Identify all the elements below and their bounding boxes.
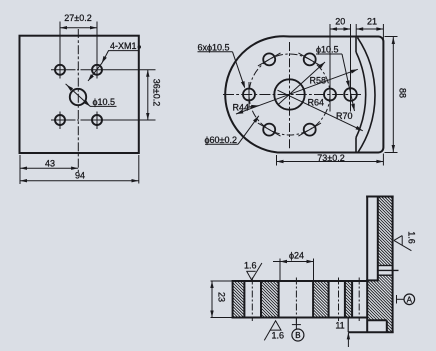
ext phi24 right	[313, 259, 315, 281]
arrow R70	[356, 126, 364, 133]
svg-text:R58: R58	[310, 76, 327, 86]
center hole flange	[274, 79, 304, 109]
hole row centerline top	[51, 69, 76, 71]
ext line 94 right	[138, 155, 140, 184]
arrows dim 88	[392, 37, 395, 44]
bolt hole top-left	[263, 53, 275, 65]
hole top-right	[92, 65, 102, 75]
svg-text:ϕ24: ϕ24	[289, 251, 304, 261]
ext 88 top	[385, 36, 398, 38]
recess right edge	[386, 320, 388, 332]
plate outline	[20, 36, 139, 153]
hole column line left	[59, 22, 61, 79]
centerline hole1	[251, 278, 253, 322]
dim 27 line	[60, 27, 97, 29]
spoke long diagonal	[236, 69, 358, 114]
hole3 right edge	[344, 282, 346, 317]
hole column line right	[96, 22, 98, 79]
center hole	[70, 89, 86, 105]
hole1 right edge	[260, 282, 262, 317]
leader 4-XM1	[88, 51, 109, 81]
arrows dim 20	[330, 27, 337, 30]
bar left edge	[232, 280, 234, 319]
roughness right: short leg	[394, 236, 402, 241]
tangent tick left hole	[248, 82, 250, 107]
leader phi60	[238, 116, 259, 145]
dim phi24 line	[273, 261, 314, 263]
hole tick bottom-left	[59, 112, 61, 130]
arrows dim 36	[146, 70, 149, 77]
ext 23 bottom	[211, 317, 233, 319]
bar bottom edge	[232, 317, 368, 319]
ext line 43 left / 94 left	[19, 155, 21, 184]
arrows dim phi24	[280, 260, 287, 263]
foot bottom edge	[348, 331, 393, 333]
hole top-left	[55, 65, 65, 75]
arrow 6xphi10.5	[241, 81, 247, 89]
ext 73 left	[276, 155, 278, 166]
dim 21 line	[356, 28, 383, 30]
ext phi24 left	[279, 259, 281, 281]
plate vertical centerline	[77, 29, 79, 172]
ext 73 right	[382, 154, 384, 166]
leader R44	[247, 106, 259, 108]
arrow R44	[251, 104, 259, 109]
centerline hole4	[358, 278, 360, 322]
hole bottom-right	[92, 115, 102, 125]
ext line hole350	[350, 24, 352, 112]
crescent outer arc	[358, 38, 375, 153]
datum B line	[295, 319, 297, 330]
arrow phi10.5 steep at hole	[346, 80, 351, 88]
roughness bottom triangle	[270, 321, 281, 330]
column right edge	[392, 196, 394, 334]
arrows dim 27	[60, 26, 67, 29]
arrow dim 11 up	[347, 332, 350, 339]
ext 23 top	[211, 280, 233, 282]
svg-text:B: B	[295, 331, 300, 340]
bore inner edge	[377, 197, 379, 281]
roughness top: hbar	[246, 270, 255, 272]
svg-text:11: 11	[335, 320, 344, 330]
svg-text:27±0.2: 27±0.2	[64, 13, 91, 23]
arrows dim 21	[356, 27, 363, 30]
svg-text:R70: R70	[336, 111, 353, 121]
svg-text:73±0.2: 73±0.2	[317, 153, 344, 163]
hatch bar seg4	[345, 282, 352, 317]
dot at plate edge	[138, 45, 141, 48]
spoke R70	[278, 90, 363, 131]
hole4 left edge	[351, 282, 353, 317]
arrow phi10.5 lower	[84, 100, 92, 108]
underline phi10.5	[90, 105, 117, 107]
ext 88 bottom	[385, 152, 398, 154]
roughness right: long leg	[394, 240, 412, 250]
underline phi10.5 flange	[316, 53, 342, 55]
tangent tick top-left hole	[258, 53, 281, 66]
dim 11 arrow shaft	[347, 333, 349, 347]
leader phi10.5 diag	[66, 84, 91, 107]
dim 88 line	[392, 37, 394, 152]
arrow phi10.5 upper	[65, 83, 73, 91]
svg-text:36±0.2: 36±0.2	[151, 79, 161, 106]
dim 36 line	[147, 70, 149, 120]
bolt circle dashed	[249, 54, 330, 135]
hatch bar seg2	[261, 282, 279, 317]
dim 20 line	[330, 28, 351, 30]
VIEW 3: section	[233, 197, 393, 332]
roughness bottom tail	[264, 330, 270, 340]
tangent tick bottom-right hole	[298, 123, 321, 136]
svg-text:43: 43	[45, 159, 55, 169]
side hole	[344, 88, 357, 101]
arrow 4-XM1 at hole	[100, 56, 107, 64]
roughness right: vbar	[401, 236, 403, 245]
bolt hole right	[324, 89, 336, 101]
arrow long diagonal right	[350, 68, 358, 74]
centerline hole3	[338, 278, 340, 322]
svg-text:4-XM1: 4-XM1	[110, 41, 137, 51]
hole24 left edge	[278, 282, 280, 317]
flange horizontal centerline	[223, 94, 361, 96]
datum B circle	[292, 329, 304, 341]
roughness top: short leg	[247, 271, 252, 280]
svg-text:ϕ60±0.2: ϕ60±0.2	[205, 135, 238, 145]
hatch column upper	[378, 197, 392, 266]
hole row centerline bottom	[51, 119, 76, 121]
column top edge	[366, 196, 393, 198]
svg-text:1.6: 1.6	[407, 231, 417, 244]
underline 6xphi10.5	[198, 51, 233, 53]
hatch block right	[368, 280, 393, 320]
svg-text:R64: R64	[308, 98, 325, 108]
arrows dim 43	[20, 167, 27, 170]
groove mid line	[378, 269, 399, 271]
crescent inner arc	[356, 52, 366, 138]
recess top edge	[367, 319, 387, 321]
datum A circle	[404, 294, 415, 305]
bolt hole bottom-right	[304, 124, 316, 136]
tangent tick bottom-left hole	[258, 123, 281, 136]
flange vertical centerline	[289, 42, 291, 150]
ext line hole330	[329, 24, 331, 112]
arrow phi60	[253, 115, 260, 123]
svg-text:R44: R44	[233, 103, 250, 113]
hole tick bottom-right	[96, 112, 98, 130]
ext line crescent edge	[355, 24, 357, 38]
svg-text:21: 21	[367, 17, 377, 27]
svg-text:88: 88	[398, 88, 408, 98]
tangent tick top-right hole	[298, 53, 321, 66]
bar top edge	[233, 280, 368, 282]
underline 4-XM1	[108, 50, 139, 52]
column left edge	[366, 196, 368, 334]
hole bottom-left	[55, 115, 65, 125]
datum B tbar	[292, 324, 301, 326]
hatch bar seg3	[313, 282, 329, 317]
arrow 4-XM1 tail	[86, 74, 93, 82]
bolt hole bottom-left	[263, 124, 275, 136]
crescent inner vertical bottom	[355, 138, 357, 153]
arrows dim 94	[20, 179, 27, 182]
bore bottom line	[366, 279, 379, 281]
hole3 left edge	[328, 282, 330, 317]
svg-text:23: 23	[216, 292, 226, 302]
hatch strip bottom-right	[387, 320, 392, 331]
svg-text:ϕ10.5: ϕ10.5	[93, 97, 116, 107]
underline phi60	[205, 143, 238, 145]
spoke R58	[279, 62, 326, 104]
svg-text:1.6: 1.6	[244, 261, 257, 271]
datum A line	[397, 298, 405, 300]
arrows dim 23	[210, 281, 213, 288]
arrow phi10.5 steep end	[351, 104, 356, 112]
svg-text:20: 20	[335, 17, 345, 27]
svg-text:94: 94	[75, 171, 85, 181]
crescent inner vertical top	[355, 38, 357, 53]
dim 43 line	[20, 167, 78, 169]
arrow long diagonal left	[235, 110, 243, 116]
hatch bar seg1	[233, 282, 245, 317]
svg-text:6xϕ10.5: 6xϕ10.5	[198, 43, 230, 53]
dim 23 line	[211, 281, 213, 318]
flange outline	[225, 36, 383, 152]
svg-text:ϕ10.5: ϕ10.5	[316, 45, 339, 55]
centerline hole24	[295, 278, 297, 326]
groove bottom line	[378, 274, 393, 276]
dim 94 line	[20, 180, 139, 182]
leader phi10.5 steep	[342, 54, 355, 111]
leader 6xphi10.5	[233, 52, 245, 88]
datum A tick	[396, 295, 398, 304]
bolt hole top-right	[304, 53, 316, 65]
groove top line	[378, 265, 393, 267]
step left edge	[347, 318, 349, 333]
bolt hole left	[243, 89, 255, 101]
svg-text:1.6: 1.6	[272, 331, 285, 341]
VIEW 2: flange	[223, 36, 383, 152]
arrows dim 73	[277, 160, 284, 163]
arrow R58	[318, 61, 326, 69]
svg-text:A: A	[407, 295, 413, 304]
roughness top: long leg	[252, 263, 262, 280]
ext line right edge top	[382, 24, 384, 41]
hole24 right edge	[312, 282, 314, 317]
dim 73 line	[277, 161, 384, 163]
hatch column lower	[378, 275, 392, 280]
hole1 left edge	[243, 282, 245, 317]
